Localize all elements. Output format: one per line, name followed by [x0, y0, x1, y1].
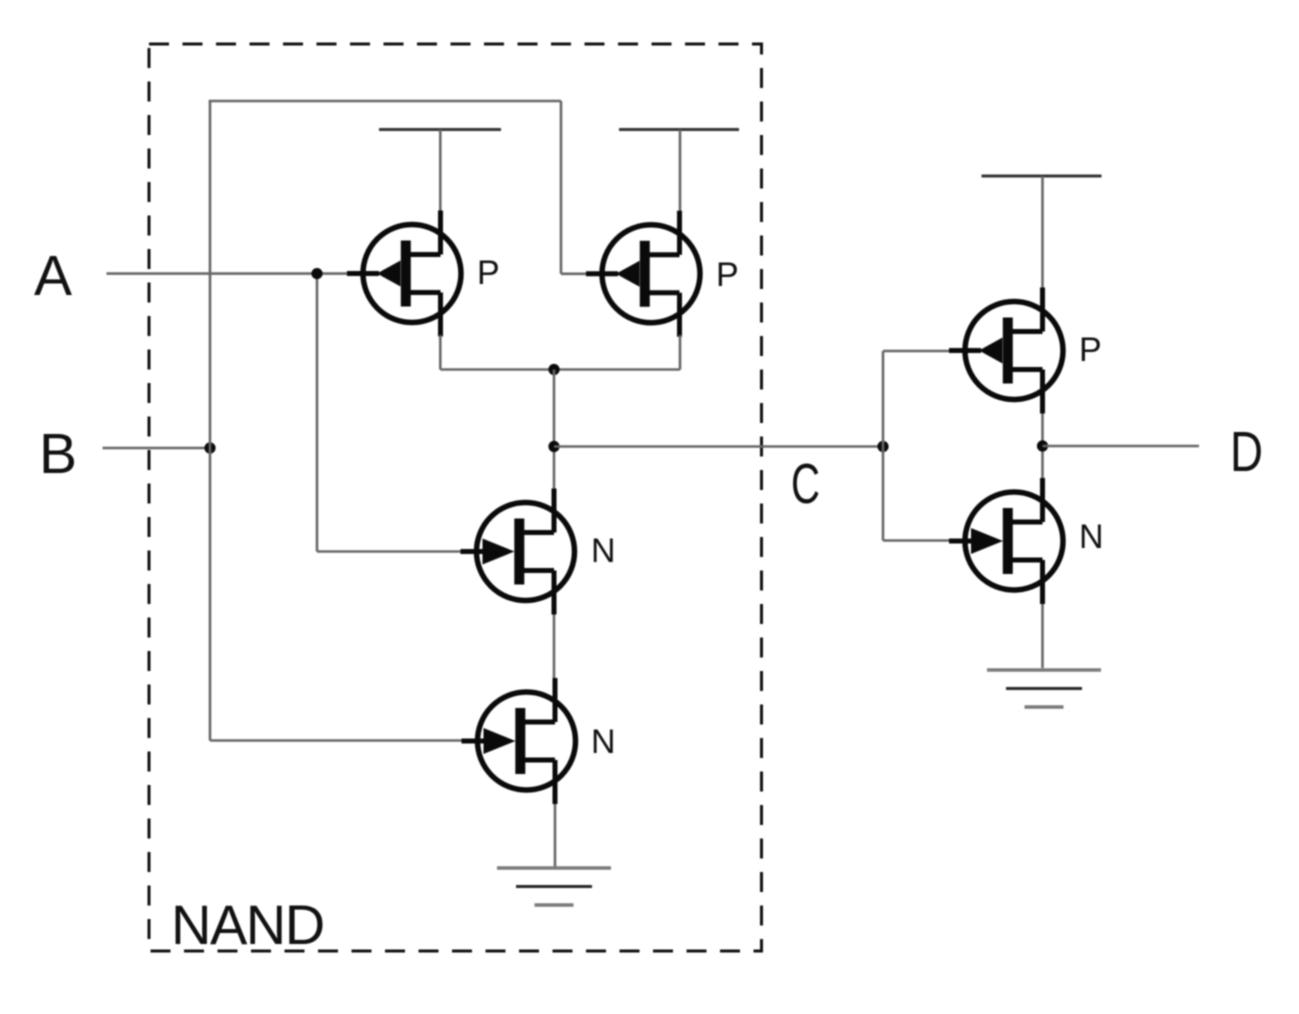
wire: C into N4 gate [883, 539, 951, 542]
svg-text:N: N [1079, 518, 1104, 556]
wire: N4 source to ground [1041, 604, 1044, 668]
svg-text:C: C [791, 452, 820, 516]
node B junction dot [204, 442, 215, 453]
node A junction dot [311, 268, 322, 279]
svg-text:P: P [1079, 331, 1102, 369]
wire: N1 source to N2 drain [553, 615, 556, 679]
wire: NAND output to C [554, 445, 883, 448]
wire: feedback horizontal into P2 gate [561, 272, 588, 275]
svg-text:B: B [39, 422, 77, 486]
svg-text:P: P [477, 254, 500, 292]
transistor P1 (pmos) [347, 211, 461, 337]
node inverter output dot [1037, 440, 1048, 451]
vdd bar VDD1 [379, 128, 501, 131]
svg-text:N: N [591, 532, 616, 570]
wire: P2 drain down [679, 335, 682, 370]
wire: top feedback horizontal to P2 [209, 100, 561, 103]
wire: VDD2 to P2 source [679, 130, 682, 214]
node drain join dot [548, 364, 559, 375]
wire: output D horizontal [1043, 445, 1200, 448]
svg-text:D: D [1230, 420, 1263, 484]
transistor N1 (nmos) [461, 489, 575, 615]
ground GND2 [987, 670, 1101, 707]
vdd bar VDD2 [619, 128, 739, 131]
node NAND output dot [548, 441, 559, 452]
wire: VDD3 to P3 source [1041, 176, 1044, 290]
transistor P2 (pmos) [586, 211, 700, 337]
wire: A branch horizontal into N1 gate [317, 550, 462, 553]
wire: input B horizontal [103, 447, 212, 450]
transistor N4 (nmos) [949, 478, 1063, 604]
svg-text:NAND: NAND [171, 893, 324, 956]
svg-text:A: A [34, 244, 72, 308]
svg-text:P: P [716, 256, 739, 294]
transistor N2 (nmos) [462, 678, 576, 804]
ground GND1 [497, 868, 611, 905]
wire: join down to output node [553, 370, 556, 490]
wire: pmos drains join horizontal [440, 368, 680, 371]
wire: feedback vertical down to P2 gate [560, 101, 563, 274]
NAND block dashed border [149, 44, 762, 951]
vdd bar VDD3 [982, 175, 1102, 178]
wire: B branch horizontal into N2 gate [210, 739, 463, 742]
wire: P3 drain to N4 drain [1041, 414, 1044, 479]
wire: input A horizontal [107, 272, 350, 275]
wire: N2 source to ground [554, 804, 557, 867]
node C junction dot [877, 441, 888, 452]
transistor P3 (pmos) [949, 288, 1063, 414]
wire: B vertical rail [209, 101, 212, 741]
wire: A gate branch vertical down to N1 [316, 274, 319, 552]
svg-text:N: N [591, 723, 616, 761]
wire: C vertical branch [882, 351, 885, 541]
wire: P1 drain down [439, 335, 442, 370]
wire: VDD1 to P1 source [439, 130, 442, 214]
wire: C into P3 gate [883, 350, 951, 353]
